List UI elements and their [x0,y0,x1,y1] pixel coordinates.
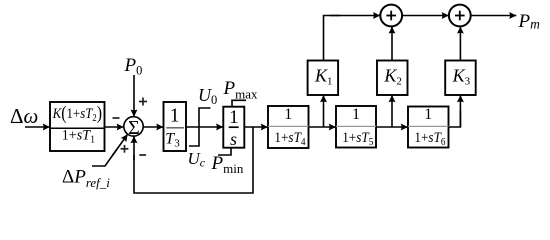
svg-text:1: 1 [229,107,239,128]
svg-text:Uc: Uc [188,149,206,170]
svg-text:Σ: Σ [128,117,140,139]
svg-text:1: 1 [424,106,432,123]
svg-text:1+sT4: 1+sT4 [274,129,305,148]
svg-text:Δω: Δω [10,104,38,128]
svg-text:Pmax: Pmax [223,78,258,102]
svg-text:s: s [230,129,237,149]
svg-text:1+sT1: 1+sT1 [62,127,95,146]
svg-text:Pm: Pm [518,11,541,32]
svg-text:Pmin: Pmin [211,153,244,176]
svg-text:K3: K3 [452,66,471,88]
svg-text:ΔPref_i: ΔPref_i [62,167,110,191]
svg-text:U0: U0 [198,85,217,107]
svg-text:T3: T3 [165,131,180,150]
svg-text:1: 1 [284,106,292,123]
svg-text:K1: K1 [314,66,333,88]
svg-text:P0: P0 [124,55,143,78]
svg-text:1+sT6: 1+sT6 [414,129,445,148]
svg-text:1+sT5: 1+sT5 [342,129,373,148]
svg-text:1: 1 [170,105,180,127]
svg-text:1: 1 [352,106,360,123]
svg-text:K2: K2 [383,66,402,88]
svg-text:K(1+sT2): K(1+sT2) [52,103,102,124]
